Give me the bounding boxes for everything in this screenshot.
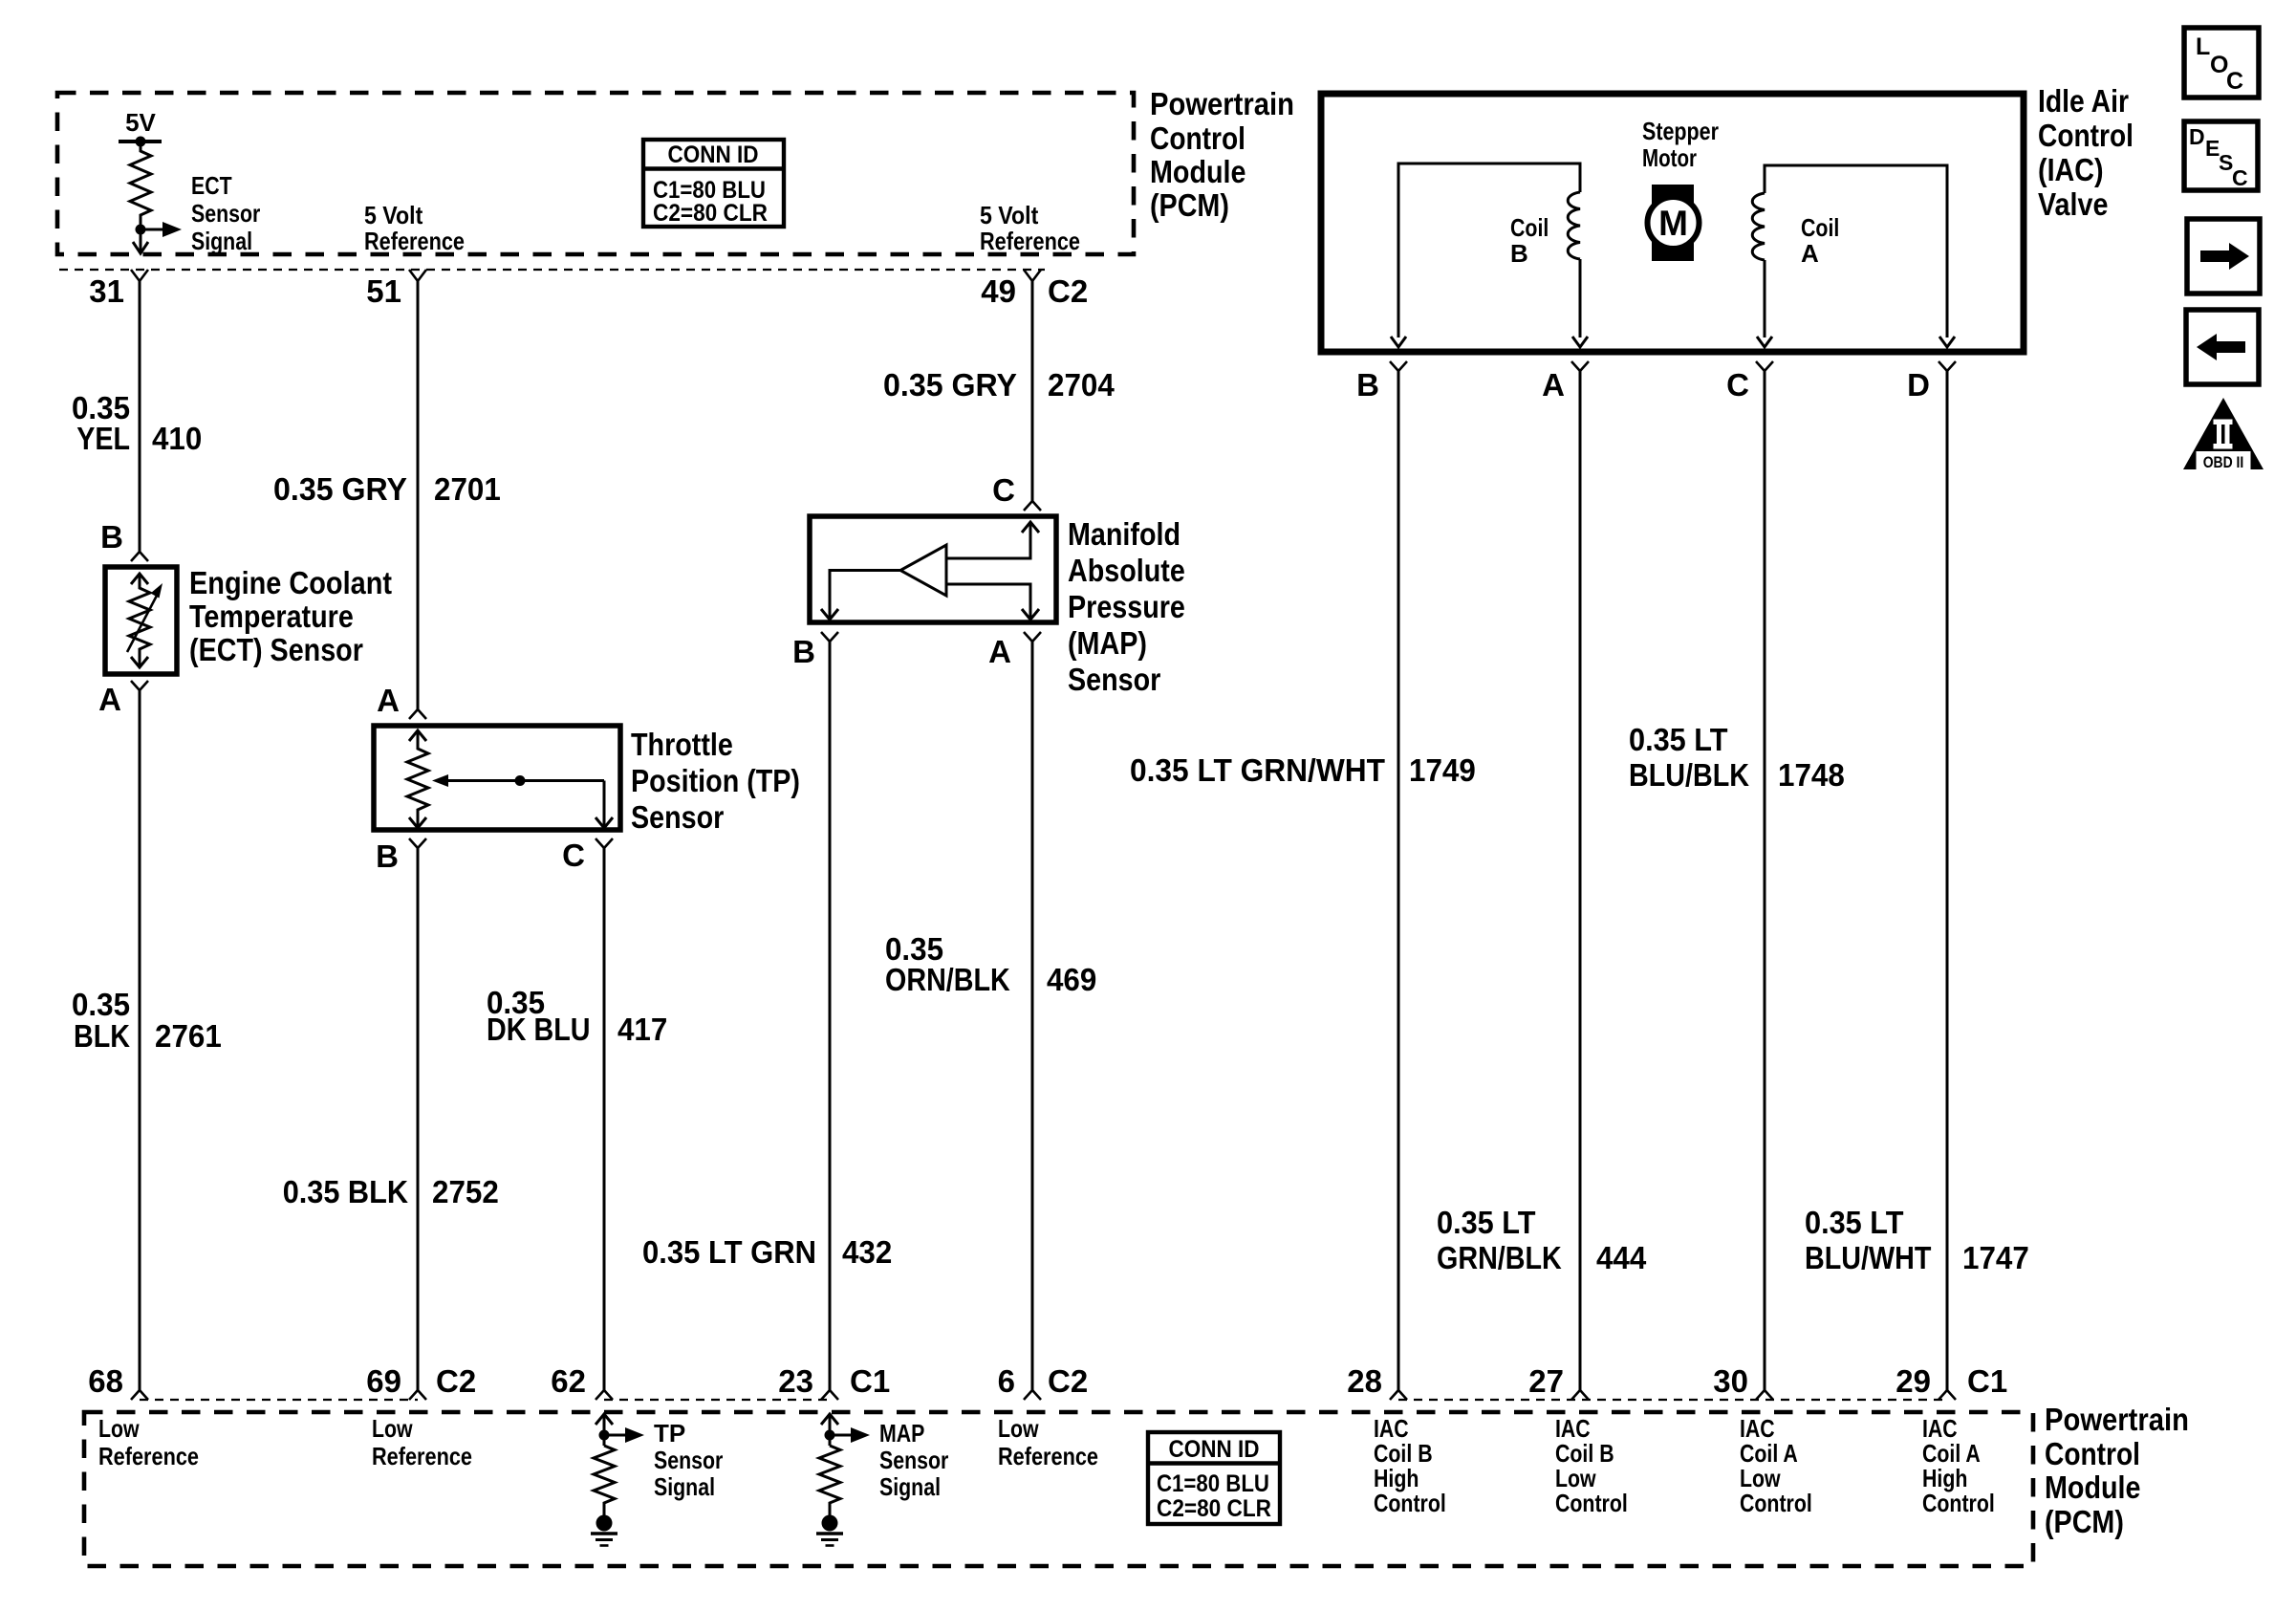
svg-text:62: 62	[551, 1363, 586, 1399]
svg-text:69: 69	[366, 1363, 401, 1399]
svg-text:B: B	[100, 519, 123, 555]
svg-text:0.35 LT: 0.35 LT	[1805, 1205, 1904, 1240]
pin 27	[1528, 1363, 1589, 1400]
IAC Coil A Low Control label (pin 30)	[1740, 1414, 1812, 1517]
svg-text:C2: C2	[1048, 1363, 1088, 1399]
svg-text:A: A	[98, 682, 121, 717]
stepper motor M symbol	[1648, 185, 1700, 261]
svg-text:OBD II: OBD II	[2203, 453, 2244, 471]
svg-text:A: A	[377, 683, 400, 718]
svg-text:C1=80 BLU: C1=80 BLU	[1157, 1470, 1269, 1497]
svg-text:Control: Control	[1150, 120, 1245, 156]
ECT sensor box	[105, 567, 177, 674]
OBD II warning triangle	[2183, 398, 2264, 471]
pin 28	[1347, 1363, 1407, 1400]
svg-text:Reference: Reference	[364, 227, 465, 255]
svg-text:CONN ID: CONN ID	[668, 142, 759, 168]
wire 2704 (5V ref, 0.35 GRY)	[1031, 281, 1034, 501]
Low Reference label (pin 6)	[998, 1414, 1098, 1470]
pin 30	[1713, 1363, 1773, 1400]
IAC pin A	[1542, 361, 1589, 403]
svg-text:0.35 BLK: 0.35 BLK	[283, 1174, 408, 1209]
Low Reference label (pin 68)	[98, 1414, 199, 1470]
svg-text:B: B	[1510, 239, 1528, 268]
svg-text:(IAC): (IAC)	[2038, 152, 2104, 187]
wire 2701 (5V ref, 0.35 GRY)	[417, 281, 420, 709]
svg-text:TP: TP	[654, 1419, 685, 1448]
svg-text:C2=80 CLR: C2=80 CLR	[653, 200, 768, 227]
junction dot (ECT signal tap)	[136, 225, 146, 235]
5 Volt Reference label (pin 49)	[980, 201, 1080, 255]
svg-text:C: C	[2232, 165, 2248, 190]
TP pin C	[562, 838, 613, 873]
svg-text:0.35 GRY: 0.35 GRY	[273, 471, 407, 507]
connector boundary bottom (thin dashed segments)	[140, 1399, 1947, 1401]
TP potentiometer resistor	[407, 730, 428, 828]
svg-text:M: M	[1658, 204, 1688, 243]
svg-text:Idle Air: Idle Air	[2038, 83, 2129, 119]
svg-text:Control: Control	[1555, 1489, 1628, 1517]
svg-text:5V: 5V	[125, 108, 156, 137]
svg-text:Engine Coolant: Engine Coolant	[189, 565, 392, 600]
svg-text:Coil: Coil	[1510, 213, 1549, 242]
svg-text:0.35: 0.35	[72, 987, 130, 1022]
svg-text:444: 444	[1596, 1240, 1647, 1275]
wire label 0.35 LT GRN/BLK 444	[1437, 1205, 1647, 1275]
MAP pin B	[792, 632, 838, 669]
PCM top box (dashed outline)	[57, 93, 1134, 254]
CONN ID table (bottom)	[1148, 1432, 1280, 1524]
svg-text:C: C	[562, 838, 585, 873]
svg-text:C: C	[2226, 68, 2243, 95]
IAC Coil B High Control label (pin 28)	[1374, 1414, 1446, 1517]
forward arrow icon box	[2187, 219, 2260, 294]
wire label 0.35 GRY 2701	[273, 471, 501, 507]
svg-text:Sensor: Sensor	[1068, 662, 1160, 697]
pin 6	[998, 1363, 1041, 1400]
svg-text:1749: 1749	[1409, 752, 1476, 788]
svg-text:Reference: Reference	[980, 227, 1080, 255]
svg-text:ECT: ECT	[191, 171, 232, 200]
ECT signal arrow (right)	[141, 222, 182, 237]
svg-text:Signal: Signal	[654, 1472, 715, 1501]
svg-text:23: 23	[778, 1363, 813, 1399]
svg-text:27: 27	[1528, 1363, 1564, 1399]
wire label 0.35 LT GRN/WHT 1749	[1130, 752, 1476, 788]
svg-text:49: 49	[981, 273, 1016, 309]
wire 410 (ECT signal, 0.35 YEL)	[139, 281, 141, 552]
svg-text:Control: Control	[1374, 1489, 1446, 1517]
wire 1747 (IAC coil A high, 0.35 LT BLU/WHT)	[1946, 371, 1949, 1391]
IAC valve box	[1321, 94, 2024, 352]
IAC Coil A High Control label (pin 29)	[1922, 1414, 1995, 1517]
svg-text:Module: Module	[2045, 1469, 2141, 1505]
svg-text:GRN/BLK: GRN/BLK	[1437, 1240, 1562, 1275]
svg-text:Powertrain: Powertrain	[2045, 1402, 2189, 1437]
svg-text:C2=80 CLR: C2=80 CLR	[1157, 1495, 1271, 1522]
svg-text:Reference: Reference	[998, 1442, 1098, 1470]
ECT pin A	[98, 681, 148, 717]
svg-text:0.35 LT GRN/WHT: 0.35 LT GRN/WHT	[1130, 752, 1385, 788]
svg-text:BLU/BLK: BLU/BLK	[1629, 757, 1749, 793]
svg-text:C2: C2	[1048, 273, 1088, 309]
IAC pin D	[1907, 361, 1956, 403]
coil A winding	[1752, 165, 1947, 337]
svg-text:410: 410	[152, 421, 202, 456]
svg-text:2752: 2752	[432, 1174, 499, 1209]
Stepper Motor label	[1642, 117, 1719, 172]
wire 469 (low ref, 0.35 ORN/BLK)	[1031, 642, 1034, 1391]
svg-text:2761: 2761	[155, 1018, 222, 1054]
svg-text:Control: Control	[2045, 1436, 2140, 1471]
wire label 0.35 DK BLU 417	[487, 985, 667, 1047]
svg-text:C1: C1	[850, 1363, 890, 1399]
svg-text:CONN ID: CONN ID	[1169, 1436, 1260, 1463]
svg-text:MAP: MAP	[879, 1419, 924, 1448]
svg-text:Throttle: Throttle	[631, 727, 733, 762]
node 5V supply	[119, 108, 162, 142]
wire label 0.35 GRY 2704	[883, 367, 1115, 403]
back arrow icon box	[2186, 310, 2259, 384]
svg-text:Absolute: Absolute	[1068, 553, 1185, 588]
wire label 0.35 LT GRN 432	[642, 1234, 892, 1270]
TP pin A	[377, 683, 426, 719]
LOC icon box	[2184, 28, 2259, 98]
MAP sensor signal input (inside PCM)	[816, 1414, 870, 1546]
Powertrain Control Module (PCM) label top	[1150, 86, 1294, 223]
svg-text:Signal: Signal	[191, 227, 252, 255]
svg-text:31: 31	[89, 273, 124, 309]
Low Reference label (pin 69)	[372, 1414, 472, 1470]
svg-text:B: B	[792, 634, 815, 669]
svg-text:Low: Low	[98, 1414, 140, 1443]
svg-text:0.35 LT: 0.35 LT	[1629, 722, 1728, 757]
Engine Coolant Temperature (ECT) Sensor label	[189, 565, 392, 667]
wire 2761 (0.35 BLK)	[139, 690, 141, 1391]
svg-text:Low: Low	[998, 1414, 1039, 1443]
wire label 0.35 BLK 2752	[283, 1174, 499, 1209]
ECT Sensor Signal label	[191, 171, 260, 255]
wire 444 (IAC coil B low, 0.35 LT GRN/BLK)	[1579, 371, 1582, 1391]
svg-text:Coil: Coil	[1801, 213, 1839, 242]
wire label 0.35 LT BLU/WHT 1747	[1805, 1205, 2029, 1275]
wire label 0.35 YEL 410	[72, 390, 202, 456]
IAC pin C	[1726, 361, 1773, 403]
svg-text:432: 432	[842, 1234, 892, 1270]
PCM bottom box (dashed outline)	[84, 1412, 2033, 1566]
pin 31	[89, 270, 148, 309]
wire label 0.35 ORN/BLK 469	[885, 931, 1096, 997]
svg-text:Stepper: Stepper	[1642, 117, 1719, 145]
svg-text:0.35 LT: 0.35 LT	[1437, 1205, 1536, 1240]
svg-text:Control: Control	[1922, 1489, 1995, 1517]
svg-text:(PCM): (PCM)	[2045, 1504, 2124, 1539]
TP wiper arrow	[432, 774, 613, 828]
svg-text:Pressure: Pressure	[1068, 589, 1185, 624]
svg-text:6: 6	[998, 1363, 1015, 1399]
Powertrain Control Module (PCM) label bottom	[2045, 1402, 2189, 1539]
svg-text:68: 68	[88, 1363, 123, 1399]
svg-text:L: L	[2196, 33, 2210, 60]
svg-text:(PCM): (PCM)	[1150, 187, 1229, 223]
svg-text:2704: 2704	[1048, 367, 1115, 403]
wire to pin 31 with down arrowhead	[133, 229, 148, 253]
TP pin B	[376, 838, 426, 874]
Manifold Absolute Pressure (MAP) Sensor label	[1068, 516, 1185, 697]
svg-text:Temperature: Temperature	[189, 599, 354, 634]
svg-text:B: B	[1356, 367, 1379, 403]
svg-text:C1: C1	[1967, 1363, 2007, 1399]
svg-text:BLK: BLK	[74, 1018, 130, 1054]
CONN ID table (top)	[643, 140, 784, 227]
svg-text:0.35 LT GRN: 0.35 LT GRN	[642, 1234, 816, 1270]
svg-text:A: A	[988, 634, 1011, 669]
svg-text:Sensor: Sensor	[191, 199, 260, 228]
svg-text:C: C	[992, 472, 1015, 508]
pin 68	[88, 1363, 148, 1400]
svg-text:2701: 2701	[434, 471, 501, 507]
TP Sensor Signal label	[654, 1419, 723, 1501]
svg-text:YEL: YEL	[76, 421, 130, 456]
svg-text:(MAP): (MAP)	[1068, 625, 1147, 661]
wire label 0.35 BLK 2761	[72, 987, 222, 1054]
svg-text:28: 28	[1347, 1363, 1382, 1399]
TP sensor signal input (inside PCM)	[591, 1414, 644, 1546]
svg-text:A: A	[1801, 239, 1819, 268]
MAP sensor box	[810, 516, 1056, 622]
svg-text:C: C	[1726, 367, 1749, 403]
wire label 0.35 LT BLU/BLK 1748	[1629, 722, 1845, 793]
svg-text:5 Volt: 5 Volt	[364, 201, 423, 229]
coil lead arrowheads (down)	[1391, 337, 1955, 347]
resistor (ECT pull-up inside PCM)	[130, 142, 151, 229]
MAP pin C	[992, 472, 1041, 511]
svg-text:D: D	[2189, 124, 2205, 149]
svg-text:1747: 1747	[1962, 1240, 2029, 1275]
svg-text:(ECT) Sensor: (ECT) Sensor	[189, 632, 363, 667]
svg-text:Motor: Motor	[1642, 143, 1697, 172]
TP sensor box	[374, 726, 620, 830]
svg-text:Control: Control	[2038, 118, 2134, 153]
MAP internal amplifier	[821, 522, 1039, 620]
connector boundary top (thin dashed)	[59, 269, 1045, 271]
svg-text:469: 469	[1047, 962, 1096, 997]
svg-text:Low: Low	[372, 1414, 413, 1443]
pin 49	[981, 270, 1041, 309]
svg-text:Signal: Signal	[879, 1472, 941, 1501]
wire 1749 (IAC coil B high, 0.35 LT GRN/WHT)	[1397, 371, 1400, 1391]
svg-text:0.35 GRY: 0.35 GRY	[883, 367, 1017, 403]
svg-text:Module: Module	[1150, 154, 1246, 189]
svg-text:BLU/WHT: BLU/WHT	[1805, 1240, 1931, 1275]
DESC icon box	[2184, 121, 2258, 190]
svg-text:Manifold: Manifold	[1068, 516, 1180, 552]
svg-text:Control: Control	[1740, 1489, 1812, 1517]
svg-text:417: 417	[617, 1012, 667, 1047]
5 Volt Reference label (pin 51)	[364, 201, 465, 255]
Idle Air Control (IAC) Valve label	[2038, 83, 2134, 222]
svg-text:Sensor: Sensor	[879, 1446, 948, 1474]
svg-text:Sensor: Sensor	[654, 1446, 723, 1474]
ECT thermistor	[127, 574, 162, 667]
Coil B label	[1510, 213, 1549, 268]
wire 432 (MAP signal, 0.35 LT GRN)	[829, 642, 832, 1391]
coil B winding	[1398, 163, 1580, 337]
svg-text:Position (TP): Position (TP)	[631, 763, 800, 798]
pin 62	[551, 1363, 613, 1400]
Throttle Position (TP) Sensor label	[631, 727, 800, 835]
svg-text:ORN/BLK: ORN/BLK	[885, 962, 1010, 997]
wire 417 (TP signal, 0.35 DK BLU)	[603, 848, 606, 1391]
svg-text:DK BLU: DK BLU	[487, 1012, 591, 1047]
wire 2752 (0.35 BLK)	[417, 848, 420, 1391]
ECT pin B	[100, 519, 148, 561]
svg-text:5 Volt: 5 Volt	[980, 201, 1039, 229]
svg-text:Sensor: Sensor	[631, 799, 724, 835]
IAC Coil B Low Control label (pin 27)	[1555, 1414, 1628, 1517]
MAP pin A	[988, 632, 1041, 669]
Coil A label	[1801, 213, 1839, 268]
svg-text:51: 51	[366, 273, 401, 309]
svg-text:B: B	[376, 838, 399, 874]
junction dot at 5V	[136, 137, 146, 147]
IAC pin B	[1356, 361, 1407, 403]
pin 69	[366, 1363, 426, 1400]
svg-text:29: 29	[1895, 1363, 1931, 1399]
svg-text:1748: 1748	[1778, 757, 1845, 793]
svg-text:C2: C2	[436, 1363, 476, 1399]
pin 23	[778, 1363, 838, 1400]
pin 51	[366, 270, 426, 309]
svg-text:D: D	[1907, 367, 1930, 403]
svg-text:Powertrain: Powertrain	[1150, 86, 1294, 121]
pin 29	[1895, 1363, 1956, 1400]
MAP Sensor Signal label	[879, 1419, 948, 1501]
svg-text:30: 30	[1713, 1363, 1748, 1399]
svg-text:Reference: Reference	[98, 1442, 199, 1470]
junction dot on TP wiper	[515, 775, 526, 786]
wire 1748 (IAC coil A low, 0.35 LT BLU/BLK)	[1764, 371, 1766, 1391]
svg-text:A: A	[1542, 367, 1565, 403]
svg-text:Valve: Valve	[2038, 186, 2108, 222]
svg-text:Reference: Reference	[372, 1442, 472, 1470]
